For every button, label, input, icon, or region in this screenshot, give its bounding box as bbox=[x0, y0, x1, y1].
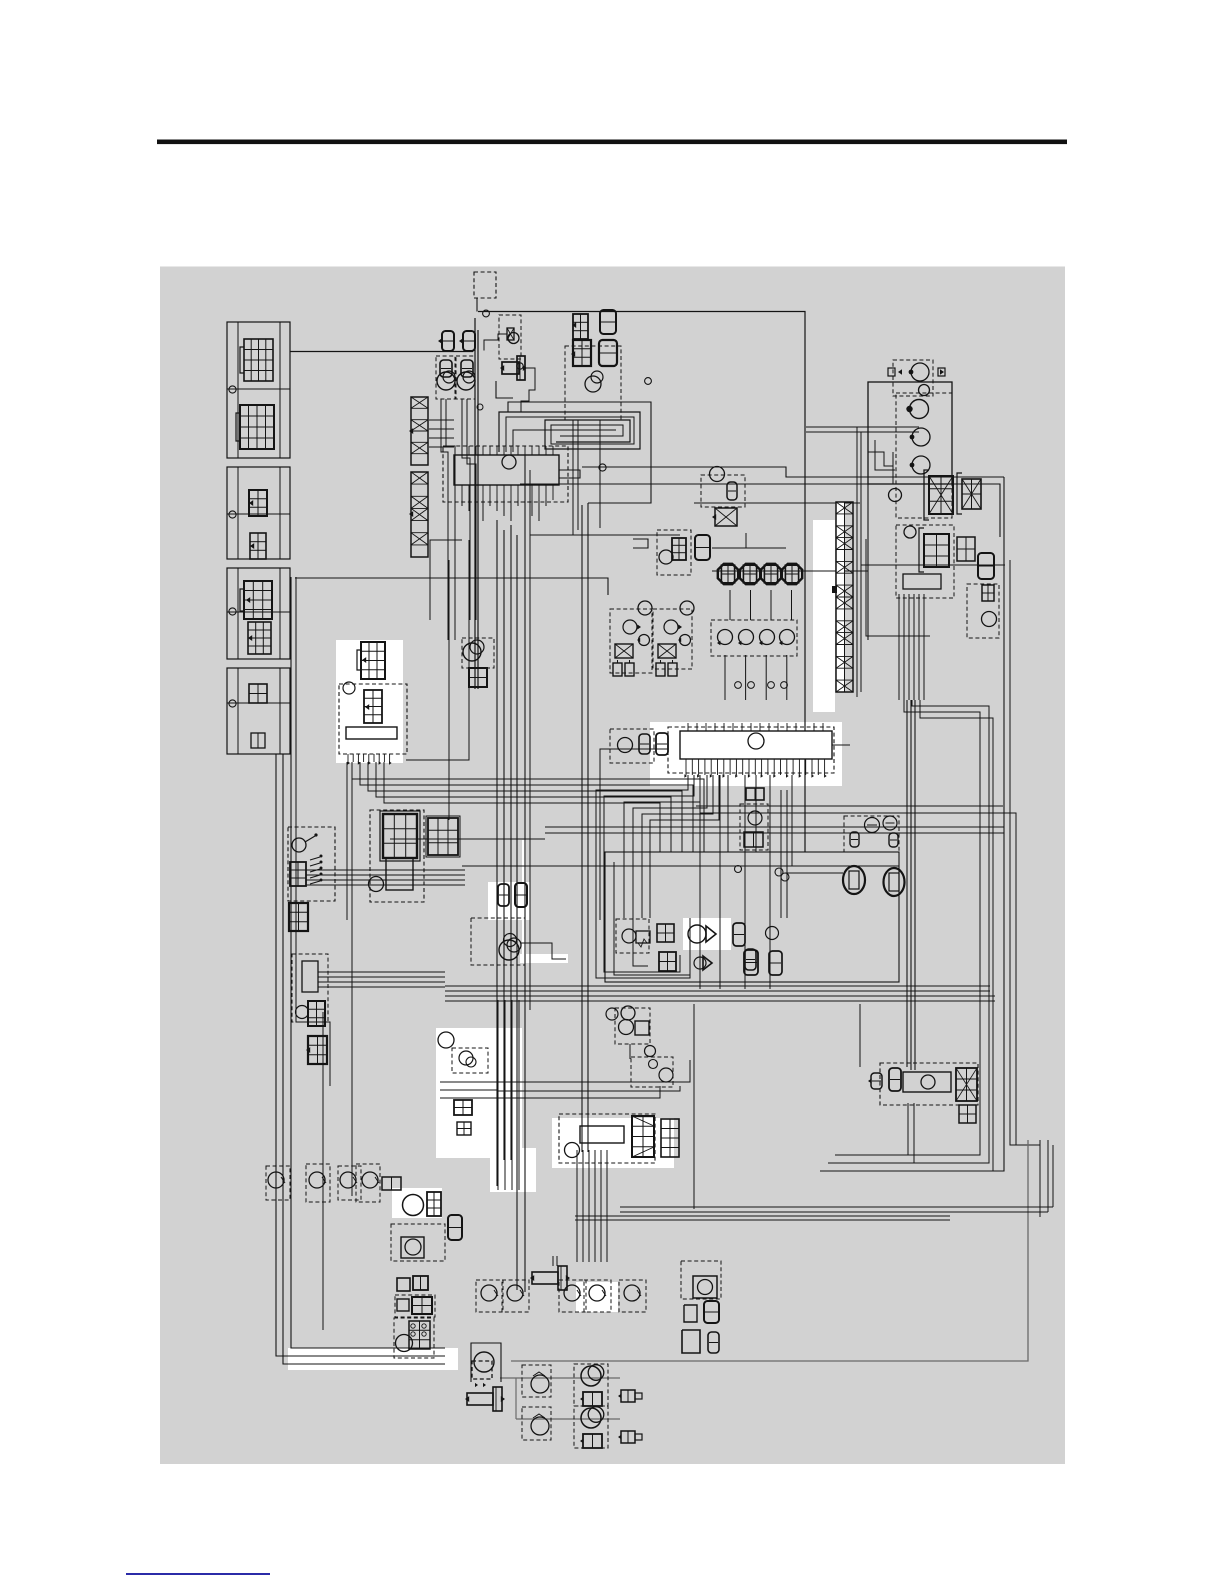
conn pair r bbox=[382, 1177, 401, 1190]
mid node a bbox=[775, 868, 783, 876]
dashed box starter bbox=[559, 1114, 655, 1163]
wire meter drop b bbox=[577, 420, 579, 530]
right relay arrow conn bbox=[871, 1073, 882, 1089]
ECU bottom pin arrows bbox=[684, 774, 687, 778]
wire centre vertical 530 bbox=[529, 470, 531, 1010]
ECU step bbox=[832, 744, 850, 746]
wire ecu drop5 bbox=[727, 775, 729, 852]
relay circle big bbox=[396, 1335, 413, 1352]
wire centre vertical 525 bbox=[524, 455, 526, 1292]
wire main bundle 2 bbox=[445, 990, 990, 992]
ECU bottom pins bbox=[685, 759, 687, 775]
horn conn 2 bbox=[583, 1434, 602, 1448]
headlight bulb 1 dot bbox=[906, 406, 912, 412]
main relay arrow bbox=[365, 704, 369, 710]
reg conn b bbox=[704, 1301, 719, 1323]
injector 3 bbox=[761, 564, 781, 584]
plug cap node 2 bbox=[748, 682, 755, 689]
right relay grid2 bbox=[959, 1105, 976, 1123]
main switch barrel bbox=[502, 362, 519, 374]
dashed circ box 4 bbox=[356, 1164, 380, 1202]
wire ecu drop3 bbox=[744, 775, 746, 989]
coil2 arrow b bbox=[678, 638, 681, 643]
wire into housing a bbox=[806, 426, 919, 428]
battery pin arrows bbox=[347, 761, 350, 765]
kickstand dashed box bbox=[462, 638, 494, 668]
left column mid line 3 bbox=[227, 611, 290, 613]
connector CN-L3 grid bbox=[249, 490, 267, 516]
meter connector C bbox=[573, 340, 591, 366]
connector FB2 bbox=[428, 818, 458, 855]
meter connector B bbox=[600, 310, 616, 334]
wire right vertical 911 bbox=[910, 700, 912, 1070]
dashed box hb bbox=[452, 1048, 488, 1073]
wire ecu drop bbox=[699, 775, 701, 989]
connector HL2 xgrid bbox=[962, 479, 981, 509]
wire indicator drop 2 bbox=[446, 399, 455, 640]
left column divider 3 bbox=[237, 568, 239, 659]
fuel pump circle bbox=[403, 1195, 424, 1216]
plug cap node 1 bbox=[735, 682, 742, 689]
tail lamp node bbox=[904, 526, 916, 538]
meter connector C arrow bbox=[571, 351, 575, 357]
fuel rconn bbox=[448, 1215, 462, 1240]
diode conn a bbox=[657, 924, 674, 942]
diode circle bbox=[622, 929, 636, 943]
pilot box detail bbox=[507, 328, 514, 340]
TPS circle bbox=[619, 1020, 634, 1035]
meter assembly bottom pins bbox=[461, 485, 463, 500]
wire centre verticals down bbox=[497, 1000, 499, 1190]
ignition switch dashed box bbox=[288, 827, 335, 901]
connector TL3 bbox=[978, 553, 994, 579]
wire ecu1 long vertical 3 bbox=[510, 525, 512, 1160]
main relay circle bbox=[343, 682, 355, 694]
TPS square bbox=[635, 1021, 649, 1035]
wire ecu drop6 bbox=[755, 775, 757, 852]
dashed circ box 1 bbox=[266, 1166, 290, 1200]
headlight inner rects bbox=[875, 440, 895, 470]
starter relay circle bbox=[369, 877, 384, 892]
relay sq 1 bbox=[397, 1278, 410, 1291]
diode D2 bbox=[703, 956, 712, 970]
sensor area inner nest bbox=[614, 862, 690, 975]
starter relay body bbox=[386, 858, 413, 890]
left column box 3 outline bbox=[227, 568, 290, 659]
white patch behind pump bundle bbox=[490, 1148, 536, 1192]
white patch behind ECU bbox=[650, 722, 842, 786]
wire y548 stub bbox=[746, 547, 786, 549]
wire main top horizontal bbox=[478, 312, 805, 853]
flasher dashed box 1 bbox=[522, 1365, 551, 1397]
connector below switch bbox=[289, 903, 308, 931]
dashed box TPS bbox=[615, 1008, 650, 1044]
front brake switch bbox=[715, 508, 737, 526]
left column divider 4 bbox=[237, 668, 239, 754]
hb pair circles bbox=[459, 1051, 473, 1065]
dashed box plug caps bbox=[711, 620, 797, 656]
wire y535 bbox=[530, 534, 680, 536]
plug cap wires bbox=[724, 655, 726, 700]
connector CN-L3 arrow bbox=[249, 500, 253, 506]
plug cap circle 3 bbox=[760, 630, 775, 645]
headlight conn stub R bbox=[938, 368, 945, 376]
headlight conn stub L bbox=[888, 368, 895, 376]
connector CN-L6 arrow bbox=[248, 635, 252, 641]
fuse strip lower arrow bbox=[409, 511, 413, 517]
wire rconn up bbox=[712, 533, 746, 548]
kickstand twin circles bbox=[463, 643, 481, 661]
regulator circle bbox=[698, 1280, 713, 1295]
meter assembly top pins bbox=[461, 446, 463, 455]
connector below ECU a bbox=[746, 788, 764, 800]
circ3 bbox=[340, 1172, 356, 1188]
engine ground oval 1 bbox=[843, 866, 865, 894]
relay sq 4 dashedbox bbox=[395, 1295, 435, 1317]
wire ecu1 vertical 449 bbox=[448, 560, 450, 820]
wire right vertical 907 bbox=[906, 700, 908, 1067]
dashed box ECU relay bbox=[610, 729, 654, 763]
right relay conn bbox=[889, 1068, 901, 1091]
dashed box pilot lamp bbox=[499, 315, 521, 359]
wire right vertical 915 bbox=[914, 700, 916, 1070]
headlight housing inner bbox=[892, 452, 894, 484]
connector CN-L5 arrow bbox=[246, 597, 250, 603]
wire centre vertical 588 bbox=[587, 503, 589, 1152]
headlight housing bbox=[868, 382, 952, 484]
white patch behind pickup row bbox=[576, 1282, 618, 1312]
wire meter left bend bbox=[430, 540, 462, 620]
connector MS1 grid bbox=[361, 642, 385, 679]
white patch behind diode block bbox=[683, 918, 731, 950]
bolt circle 2 bbox=[229, 511, 236, 518]
ECU top pins bbox=[687, 723, 689, 731]
wire upper cross 813 bbox=[700, 813, 1040, 1145]
ECU body bbox=[680, 731, 832, 759]
dashed box ignition coil 1 bbox=[610, 609, 652, 673]
fuel sub body bbox=[401, 1237, 424, 1258]
wire mid horiz 839 bbox=[390, 838, 545, 840]
relay sq 4 bbox=[412, 1297, 432, 1314]
wire ecu nest 3 bbox=[624, 775, 700, 918]
fusebox grid big frame bbox=[380, 811, 420, 861]
coil barrel mid bbox=[532, 1272, 558, 1284]
ECU circle bbox=[748, 733, 764, 749]
front sensor circle bbox=[710, 467, 725, 482]
wire meter drop a bbox=[572, 420, 574, 535]
injector 4 bbox=[782, 564, 802, 584]
connector TL1 bbox=[924, 534, 949, 567]
diode D1 bbox=[688, 925, 706, 943]
wire right bundle down3 bbox=[820, 700, 993, 1171]
horn dashed box 2 bbox=[574, 1406, 608, 1448]
left column mid line 4 bbox=[227, 702, 290, 704]
connector CN-L1 tab bbox=[240, 347, 244, 373]
clutch conn b bbox=[515, 883, 527, 907]
right relay xgrid bbox=[956, 1068, 977, 1101]
fusebox grid big bbox=[383, 814, 417, 858]
wire ecu1 long vertical 1 bbox=[496, 520, 498, 1186]
connector CN-L7 bbox=[249, 684, 267, 703]
dashed box horn top bbox=[471, 918, 525, 965]
node small 1 bbox=[645, 378, 652, 385]
fuse strip upper bbox=[411, 397, 428, 465]
wire ecu drop7 bbox=[791, 775, 793, 866]
wire far right loop bbox=[952, 484, 1000, 537]
lock unit body bbox=[302, 961, 318, 992]
wire main bundle 1 bbox=[445, 985, 990, 987]
small circ a bbox=[645, 1046, 656, 1057]
pickup circle 5 bbox=[624, 1285, 640, 1301]
reg conn d bbox=[708, 1332, 719, 1353]
dashed box ECU bbox=[668, 727, 834, 773]
wire strip to ecu bbox=[429, 419, 454, 421]
regulator body bbox=[693, 1276, 717, 1298]
meter assembly step bbox=[559, 470, 580, 478]
bolt circle 1 bbox=[229, 386, 236, 393]
connector HL1 bracket bbox=[924, 470, 929, 520]
circ2 bbox=[309, 1172, 325, 1188]
meter connector D bbox=[599, 340, 617, 366]
wire indicator drop 3 bbox=[462, 399, 470, 620]
fuse strip lower bbox=[411, 472, 428, 557]
fuse strip side tab bbox=[832, 586, 837, 593]
dashed box headlight top bbox=[893, 360, 933, 396]
wire strip side verticals bbox=[856, 427, 858, 697]
sensor area big rect bbox=[605, 852, 899, 982]
wire pilot right path bbox=[521, 368, 535, 412]
left big box top edge bbox=[295, 578, 608, 595]
left column box 4 outline bbox=[227, 668, 290, 754]
pickup circle 3 bbox=[564, 1285, 580, 1301]
dashed box headlight main bbox=[896, 393, 952, 518]
coil1 arrow b bbox=[637, 638, 640, 643]
coil1 circle b bbox=[639, 635, 650, 646]
node circle 602 bbox=[599, 464, 606, 471]
relay sq 3 bbox=[397, 1299, 409, 1311]
ECU relay conn a bbox=[639, 734, 650, 754]
speedo nested rect inner bbox=[506, 417, 634, 452]
wire ecu nest 4 bbox=[633, 775, 707, 966]
wire indicator drop 1 bbox=[441, 399, 448, 640]
connector CN-L2 tab bbox=[236, 413, 240, 441]
connector below ECU b bbox=[744, 832, 763, 847]
wire hb extend 2 bbox=[497, 1086, 680, 1091]
reg conn c bbox=[682, 1330, 700, 1353]
wire ecu drop4 bbox=[769, 775, 771, 989]
indicator lamp L bbox=[437, 372, 455, 390]
wire barrel down bbox=[496, 381, 513, 398]
clutch conn a bbox=[498, 884, 509, 906]
sensor2 circle bbox=[659, 1068, 673, 1082]
left column divider 2b bbox=[279, 467, 281, 559]
footer link underline bbox=[126, 1573, 270, 1575]
relay hook wire bbox=[633, 539, 648, 548]
injector wires bbox=[729, 590, 731, 620]
dashed box meter bbox=[565, 346, 621, 420]
dashed box regulator bbox=[681, 1261, 721, 1299]
wire ecu1 long vertical 4 bbox=[516, 535, 518, 1290]
flasher circle 2 bbox=[531, 1417, 549, 1435]
wire centre vertical 582 bbox=[581, 505, 583, 1152]
wire bottom gray long bbox=[511, 1140, 1028, 1361]
pickup circle 4 bbox=[589, 1285, 605, 1301]
sidestand arrows bbox=[475, 1383, 478, 1387]
plug cap node 4 bbox=[781, 682, 788, 689]
dashed box fusebox bbox=[370, 810, 424, 902]
headlight bulb 1 bbox=[910, 400, 929, 419]
relay grid circ box bbox=[394, 1318, 434, 1358]
sensor pair 2 circle bbox=[766, 927, 779, 940]
connector FB2 frame bbox=[426, 816, 460, 857]
license connector bbox=[982, 585, 994, 601]
connector CN-L5 grid bbox=[244, 581, 272, 619]
sidestand circle bbox=[474, 1352, 494, 1372]
connector CN-L5 notch bbox=[240, 589, 244, 611]
white patch behind starter relay bbox=[552, 1118, 674, 1168]
white patch behind bottom-left bundle bbox=[288, 1348, 458, 1370]
license lamp plate bbox=[903, 574, 941, 589]
rear brake conn 1 bbox=[850, 832, 859, 847]
horn double circle 2 bbox=[581, 1408, 601, 1428]
relay sq 2 bbox=[413, 1276, 428, 1290]
dashed box indicator R bbox=[456, 356, 475, 399]
ignition switch circle bbox=[292, 838, 306, 852]
relay centre circle bbox=[659, 550, 673, 564]
left column box 2 outline bbox=[227, 467, 290, 559]
sidestand relay sq bbox=[472, 1361, 492, 1379]
wire y503 right bbox=[694, 502, 860, 504]
white patch behind centre bundle bbox=[491, 1030, 509, 1150]
wire y467 bbox=[582, 467, 1004, 477]
wire from ground box bbox=[476, 298, 478, 312]
left column mid line 1 bbox=[227, 388, 290, 390]
coil barrel bottom bbox=[467, 1393, 493, 1405]
connector MS1 notch bbox=[357, 650, 361, 670]
diode conn b bbox=[659, 952, 676, 971]
coil2 arrow a bbox=[678, 625, 682, 630]
hb grid bbox=[454, 1100, 472, 1115]
wire mid horiz 833 bbox=[545, 832, 1004, 834]
wire upper cross 806 bbox=[696, 805, 1003, 807]
wire right bundle down bbox=[835, 700, 980, 1155]
connector small T3 bbox=[440, 360, 452, 377]
connector CN-L8 bbox=[251, 733, 265, 748]
plug 2b bbox=[668, 663, 677, 676]
connector TL1 bracket bbox=[919, 528, 924, 572]
bolt circle 4 bbox=[229, 700, 236, 707]
mid node b bbox=[781, 873, 789, 881]
hb wires bbox=[440, 1081, 497, 1083]
wire switch vertical b bbox=[346, 762, 348, 920]
wire ecu nest 6 bbox=[650, 775, 719, 918]
reg conn a bbox=[684, 1305, 697, 1322]
wire bundle below meter assembly bbox=[461, 500, 463, 506]
sensor pair 2 conn bbox=[769, 951, 782, 975]
horn double circle 1 bbox=[581, 1366, 601, 1386]
coil1 arrow a bbox=[637, 625, 641, 630]
wire ecu nest 5 bbox=[642, 775, 713, 918]
ECU relay conn b bbox=[656, 733, 668, 755]
rear brake circle 1 bbox=[865, 818, 880, 833]
bottom conn r2 bbox=[621, 1431, 635, 1443]
starter grid2 bbox=[661, 1119, 679, 1157]
wire starter bundle bbox=[576, 1150, 578, 1262]
meter connector A arrow bbox=[572, 322, 576, 328]
wire bottom gray 2 bbox=[516, 1418, 620, 1420]
wire bottom double 1 bbox=[575, 1215, 950, 1217]
node circle top bbox=[483, 310, 490, 317]
headlight bulb 3 bbox=[912, 456, 930, 474]
node circle 480 bbox=[477, 404, 483, 410]
wire below ECU verticals bbox=[780, 790, 782, 918]
starter circle bbox=[565, 1143, 580, 1158]
injector 1 bbox=[718, 564, 738, 584]
diagram gray background bbox=[160, 267, 1065, 1465]
wire bottom gray 3 bbox=[500, 1377, 620, 1379]
connector lock lower bbox=[308, 1036, 327, 1064]
headlight bulb 2 bbox=[912, 428, 930, 446]
coil1 circle a bbox=[623, 620, 637, 634]
wire y484 bbox=[520, 483, 868, 485]
coil barrel wires bbox=[552, 1256, 554, 1266]
pickup circle 1 bbox=[481, 1285, 497, 1301]
wire right bundle down2 bbox=[828, 700, 989, 1163]
ground node column outline upper bbox=[227, 322, 290, 458]
coil node 2 bbox=[680, 601, 694, 615]
coil node 1 bbox=[638, 601, 652, 615]
relay grid w circles bbox=[409, 1321, 430, 1349]
front sensor part bbox=[727, 482, 737, 500]
diode conn c bbox=[733, 923, 745, 946]
right relay circle bbox=[921, 1075, 935, 1089]
main relay grid bbox=[364, 690, 382, 723]
bottom conn r1 bbox=[621, 1390, 635, 1402]
wire fan to right bbox=[352, 762, 704, 852]
white patch behind fuse strip bbox=[813, 520, 835, 712]
coil2 winding bbox=[658, 644, 676, 658]
wire relay right horiz bbox=[859, 1004, 861, 1067]
white patch behind main-switch connector bbox=[336, 640, 403, 763]
hb grid2 bbox=[457, 1122, 471, 1135]
headlight top circle bbox=[919, 385, 930, 396]
left column divider 1b bbox=[279, 322, 281, 458]
white halo vertical 527 bbox=[522, 840, 526, 960]
connector small T2 arrow bbox=[459, 338, 463, 344]
dashed box license lamp bbox=[967, 584, 999, 638]
wire bottom double 2 bbox=[575, 1219, 950, 1221]
dashed box main relay bbox=[339, 684, 407, 754]
wire left box inner bbox=[296, 577, 330, 1086]
wire meter drop c bbox=[599, 420, 601, 528]
connector lock lower arrow bbox=[306, 1047, 310, 1053]
connector small T1 bbox=[442, 331, 454, 351]
coil2 circle b bbox=[680, 635, 691, 646]
pilot bulb bbox=[508, 333, 519, 344]
meter assembly body bbox=[454, 455, 559, 485]
wire main bundle 3 bbox=[445, 995, 995, 997]
plug cap circle 2 bbox=[739, 630, 754, 645]
horn conn 1 bbox=[583, 1392, 602, 1406]
left column divider 1 bbox=[237, 322, 239, 458]
wire bottom gray stub bbox=[515, 1378, 517, 1419]
position lamp circle bbox=[889, 489, 902, 502]
battery pins bbox=[347, 754, 349, 762]
left column mid line 2 bbox=[227, 513, 290, 515]
wire ecu1 branch left bbox=[406, 540, 469, 760]
horn top circle big bbox=[499, 940, 519, 960]
wire ecu nest 1 bbox=[596, 775, 690, 978]
